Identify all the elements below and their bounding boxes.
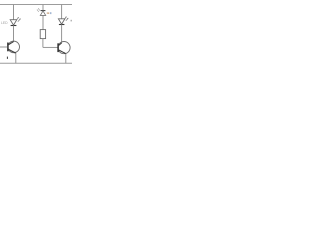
label value (orange) right of LED D2 [46,11,51,15]
resistor R1 (box) [40,30,45,39]
svg-text:1k: 1k [46,11,50,15]
wire Q1 base lead (from left edge) [0,46,7,48]
svg-text:LED: LED [1,21,8,25]
tick mark (cropped label) below Q1 base [6,57,8,59]
LED D1 (left, pointing down) [10,17,20,25]
wire from V+ rail to LED D3 anode [61,5,63,19]
LED D2 (middle, pointing up) [37,8,46,15]
wire LED D1 cathode to Q1 collector [13,26,15,42]
label fragment right of LED D3 (cropped) [71,20,73,22]
wire resistor R1 to Q2 base (L-shape) [43,39,58,48]
label LED (D1) [1,21,8,25]
transistor Q1 (NPN) [8,41,20,53]
wire LED D2 anode to resistor R1 [42,16,44,30]
LED D3 (right, pointing down) [58,17,68,25]
wire Q2 emitter to ground rail [65,54,67,64]
wire from V+ rail to LED D2 cathode [42,5,44,12]
wire LED D3 cathode to Q2 collector [61,25,63,43]
transistor Q2 (NPN) [58,42,70,54]
wire Q1 emitter to ground rail [15,53,17,63]
wire from V+ rail to LED D1 anode [13,5,15,20]
wire V+ top rail [0,4,72,6]
wire ground bottom rail [0,62,72,64]
